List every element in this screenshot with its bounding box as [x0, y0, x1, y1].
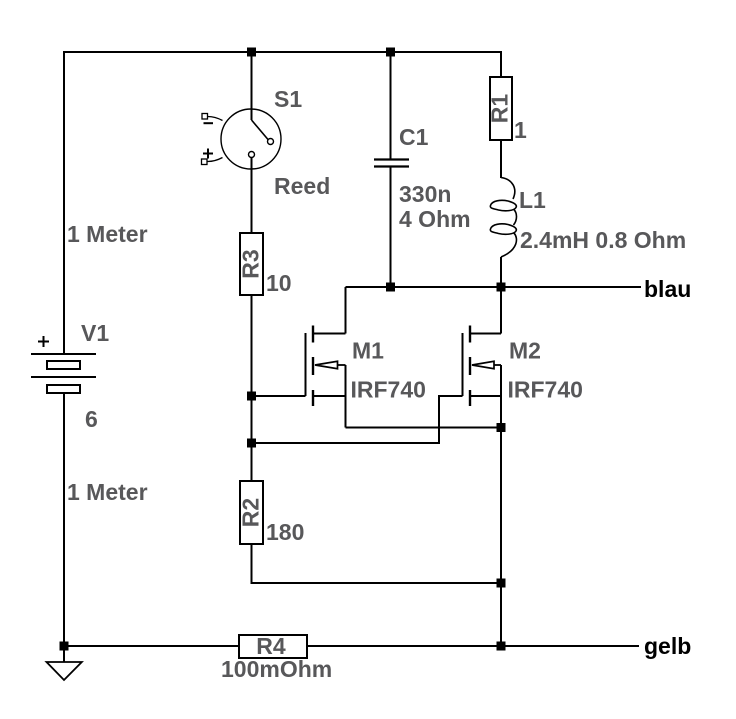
- resistor R1: [487, 77, 513, 140]
- svg-text:R3: R3: [238, 249, 264, 278]
- junction M1 gate: [247, 392, 256, 401]
- value 10: [266, 270, 292, 296]
- wire left rail lower: [63, 393, 65, 662]
- value 6: [85, 406, 98, 432]
- value 100mOhm: [221, 656, 332, 682]
- wire R3 to R2: [251, 295, 253, 481]
- svg-text:330n: 330n: [399, 181, 451, 207]
- svg-text:gelb: gelb: [644, 633, 691, 659]
- value Reed: [274, 173, 330, 199]
- svg-text:4 Ohm: 4 Ohm: [399, 206, 471, 232]
- value 1: [514, 117, 527, 143]
- svg-text:R2: R2: [238, 498, 264, 527]
- junction gelb: [497, 642, 506, 651]
- label S1: [274, 86, 302, 112]
- svg-text:Reed: Reed: [274, 173, 330, 199]
- label M1: [352, 338, 384, 364]
- wire top rail to R1: [500, 52, 502, 77]
- label L1: [519, 187, 546, 213]
- wire L1 to blau node: [500, 257, 502, 287]
- wire S1 drop: [251, 52, 253, 120]
- junction M2 gate: [247, 439, 256, 448]
- wire M1 gate to rail: [252, 395, 306, 397]
- svg-text:6: 6: [85, 406, 98, 432]
- resistor R2: [238, 481, 264, 544]
- value 330n: [399, 181, 451, 207]
- svg-text:180: 180: [266, 519, 304, 545]
- wire M2 gate to rail: [252, 396, 463, 443]
- ground: [47, 662, 82, 680]
- wire S1 to R3: [251, 158, 253, 234]
- svg-text:IRF740: IRF740: [351, 377, 426, 403]
- junction top C1: [386, 48, 395, 57]
- transistor M1: [306, 287, 346, 428]
- net blau: [644, 276, 691, 302]
- value IRF740 (M2): [508, 377, 583, 403]
- label 1 Meter (upper wire): [67, 221, 148, 247]
- resistor R3: [238, 233, 264, 295]
- junction blau C1: [386, 283, 395, 292]
- svg-text:1 Meter: 1 Meter: [67, 221, 148, 247]
- svg-text:M1: M1: [352, 338, 384, 364]
- svg-text:S1: S1: [274, 86, 302, 112]
- wire blau rail: [346, 286, 642, 288]
- svg-text:IRF740: IRF740: [508, 377, 583, 403]
- junction blau L1: [497, 283, 506, 292]
- net gelb: [644, 633, 691, 659]
- svg-text:M2: M2: [509, 338, 541, 364]
- label C1: [399, 124, 429, 150]
- transistor M2: [463, 287, 502, 646]
- wire top rail: [64, 51, 502, 53]
- inductor L1: [490, 178, 516, 258]
- label V1: [81, 320, 109, 346]
- battery V1: [31, 336, 96, 393]
- junction top S1: [247, 48, 256, 57]
- capacitor C1: [374, 52, 409, 287]
- junction R2 bottom: [497, 579, 506, 588]
- svg-text:L1: L1: [519, 187, 546, 213]
- wire R2 bottom to right: [252, 544, 502, 583]
- svg-text:C1: C1: [399, 124, 429, 150]
- svg-text:1 Meter: 1 Meter: [67, 479, 148, 505]
- wire R1 to L1: [500, 140, 502, 178]
- svg-text:blau: blau: [644, 276, 691, 302]
- svg-text:100mOhm: 100mOhm: [221, 656, 332, 682]
- resistor R4: [239, 633, 307, 659]
- value 2.4mH 0.8 Ohm: [520, 227, 686, 253]
- junction ground: [60, 642, 69, 651]
- label M2: [509, 338, 541, 364]
- value 4 Ohm: [399, 206, 471, 232]
- wire bottom rail: [64, 645, 639, 647]
- svg-text:V1: V1: [81, 320, 109, 346]
- svg-text:2.4mH 0.8 Ohm: 2.4mH 0.8 Ohm: [520, 227, 686, 253]
- value 180: [266, 519, 304, 545]
- junction sources: [497, 423, 506, 432]
- svg-text:10: 10: [266, 270, 292, 296]
- wire M1 source to M2 source: [346, 427, 502, 429]
- svg-text:R1: R1: [487, 94, 513, 124]
- label 1 Meter (lower wire): [67, 479, 148, 505]
- switch S1: [202, 109, 282, 169]
- wire left rail upper: [63, 51, 65, 354]
- svg-text:1: 1: [514, 117, 527, 143]
- value IRF740 (M1): [351, 377, 426, 403]
